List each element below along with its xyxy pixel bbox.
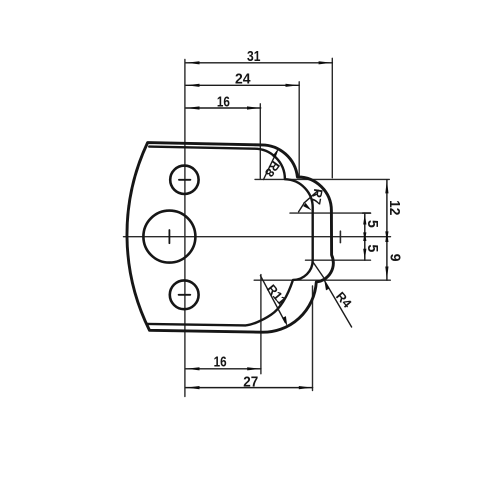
centerline horizontal (part axis): [124, 236, 391, 238]
centerline dash tick: [339, 231, 341, 242]
hole small bottom: [170, 280, 199, 309]
dimension line 31: [186, 62, 332, 64]
top tick of 5 line: [363, 212, 371, 214]
dimension line 12/9 (right outer): [386, 180, 388, 281]
svg-text:16: 16: [217, 95, 230, 111]
hole small top tick: [179, 179, 191, 181]
svg-text:27: 27: [243, 375, 258, 391]
dimension line 5/5 (right inner): [364, 213, 366, 260]
extension line 12 top: [255, 178, 389, 180]
leader R7: [304, 190, 319, 203]
svg-text:R7: R7: [309, 188, 326, 206]
dimension line 16 bottom: [186, 368, 261, 370]
hole small bottom tick: [179, 294, 191, 296]
svg-text:16: 16: [214, 355, 227, 371]
leader R11: [260, 276, 285, 323]
hole large center tick: [168, 230, 170, 243]
part outline outer silhouette: [127, 143, 333, 333]
extension line 31: [331, 58, 333, 178]
dimension line 16 top: [186, 107, 261, 109]
part bevel inner line: [147, 147, 313, 326]
extension line 24: [298, 82, 300, 178]
leader R4: [324, 281, 351, 328]
dimension line 27: [186, 387, 313, 389]
svg-text:5: 5: [364, 244, 380, 252]
extension line 16 top: [259, 104, 261, 179]
extension line 27: [312, 286, 314, 391]
leader R8: [264, 151, 278, 179]
extension line 9 bottom: [254, 279, 390, 281]
centerline vertical (hole axis): [184, 60, 186, 397]
extension line 5 top: [290, 212, 371, 214]
hole small top: [170, 166, 198, 194]
svg-text:24: 24: [235, 71, 251, 87]
svg-text:31: 31: [247, 49, 260, 65]
R4 radius line: [313, 262, 324, 278]
extension line 16 bottom (R11 center): [260, 275, 262, 374]
dimension line 24: [186, 84, 299, 86]
extension line 5 bottom: [306, 259, 371, 261]
svg-text:9: 9: [387, 254, 403, 262]
svg-text:5: 5: [364, 220, 380, 228]
svg-text:12: 12: [386, 200, 402, 215]
hole large center: [143, 211, 195, 263]
